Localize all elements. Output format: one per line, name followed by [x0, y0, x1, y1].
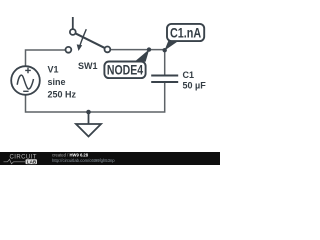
wire from V1 bottom down and along bottom to capacitor: [26, 82, 165, 112]
top throw stub: [72, 17, 74, 29]
voltage source V1: [11, 66, 40, 95]
svg-text:C1.nA: C1.nA: [170, 25, 201, 40]
actuation arrow: [80, 29, 86, 45]
svg-text:created / HW9 6.28: created / HW9 6.28: [52, 153, 89, 158]
terminal circles: [66, 47, 72, 53]
wire from switch right terminal to capacitor corner: [110, 50, 164, 75]
CircuitLab logo: [4, 155, 38, 165]
label V1 value: [48, 65, 77, 100]
junction corner dot (C1.nA anchor): [163, 48, 167, 52]
blade: [75, 33, 105, 48]
junction dot at ground: [86, 110, 91, 115]
wire from V1 top up to corner: [26, 50, 66, 67]
label C1 value: [183, 70, 207, 90]
svg-text:SW1: SW1: [78, 61, 98, 71]
footer bar: [0, 152, 220, 165]
svg-text:http://circuitlab.com/c6t99fgh: http://circuitlab.com/c6t99fgh53np: [52, 158, 115, 163]
svg-text:LAB: LAB: [27, 159, 37, 164]
svg-text:50 µF: 50 µF: [183, 80, 207, 90]
junction node dot (NODE4 anchor): [147, 47, 151, 51]
capacitor C1: [151, 76, 178, 83]
current probe flag C1.nA: [164, 24, 204, 51]
svg-text:NODE4: NODE4: [107, 62, 143, 78]
switch SW1: [66, 17, 111, 53]
svg-text:V1: V1: [48, 65, 59, 75]
footer text: [52, 153, 115, 163]
node flag NODE4: [104, 49, 149, 78]
ground: [76, 112, 101, 137]
svg-text:250 Hz: 250 Hz: [48, 89, 77, 99]
svg-text:C1: C1: [183, 70, 195, 80]
svg-text:sine: sine: [48, 77, 66, 87]
